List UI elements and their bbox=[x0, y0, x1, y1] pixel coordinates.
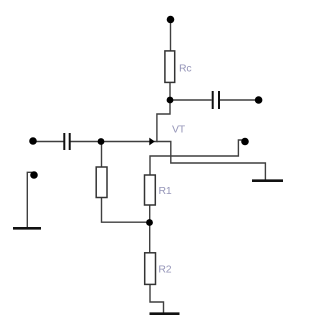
svg-text:R1: R1 bbox=[159, 185, 172, 197]
svg-text:VT: VT bbox=[172, 123, 186, 135]
svg-text:R2: R2 bbox=[158, 264, 171, 276]
svg-text:Rc: Rc bbox=[179, 62, 191, 74]
